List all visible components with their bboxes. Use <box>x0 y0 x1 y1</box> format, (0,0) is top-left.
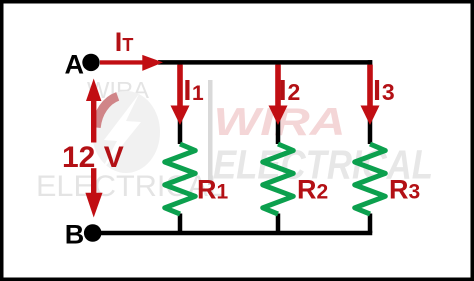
resistor R1 <box>165 144 196 214</box>
resistor R2 <box>263 144 294 214</box>
current arrow IT <box>100 55 163 71</box>
wire: top bus from IT arrow to branch 3 <box>158 60 372 65</box>
wire: branch 1 upper segment <box>178 62 183 144</box>
current arrow I2 <box>269 65 288 125</box>
watermark group (decorative) <box>36 77 433 203</box>
wire: branch 3 upper segment <box>368 60 373 144</box>
svg-text:I2: I2 <box>279 75 301 107</box>
wire: branch 3 lower segment <box>368 214 373 234</box>
node A <box>65 50 100 80</box>
current arrow I3 <box>361 65 380 125</box>
voltage arrow 12V down head <box>85 168 102 217</box>
resistor R3 <box>355 144 386 214</box>
wire: branch 2 upper segment <box>276 62 281 144</box>
svg-text:B: B <box>65 220 85 250</box>
svg-text:I3: I3 <box>373 75 395 107</box>
voltage arrow 12V up head <box>86 79 101 143</box>
wire: bottom bus from node B to branch 3 <box>93 231 372 236</box>
node B <box>65 220 102 250</box>
wire: branch 2 lower segment <box>276 214 281 234</box>
svg-text:12 V: 12 V <box>62 141 124 174</box>
current arrow I1 <box>171 65 190 125</box>
wire: branch 1 lower segment <box>178 214 183 234</box>
svg-text:A: A <box>65 50 85 80</box>
